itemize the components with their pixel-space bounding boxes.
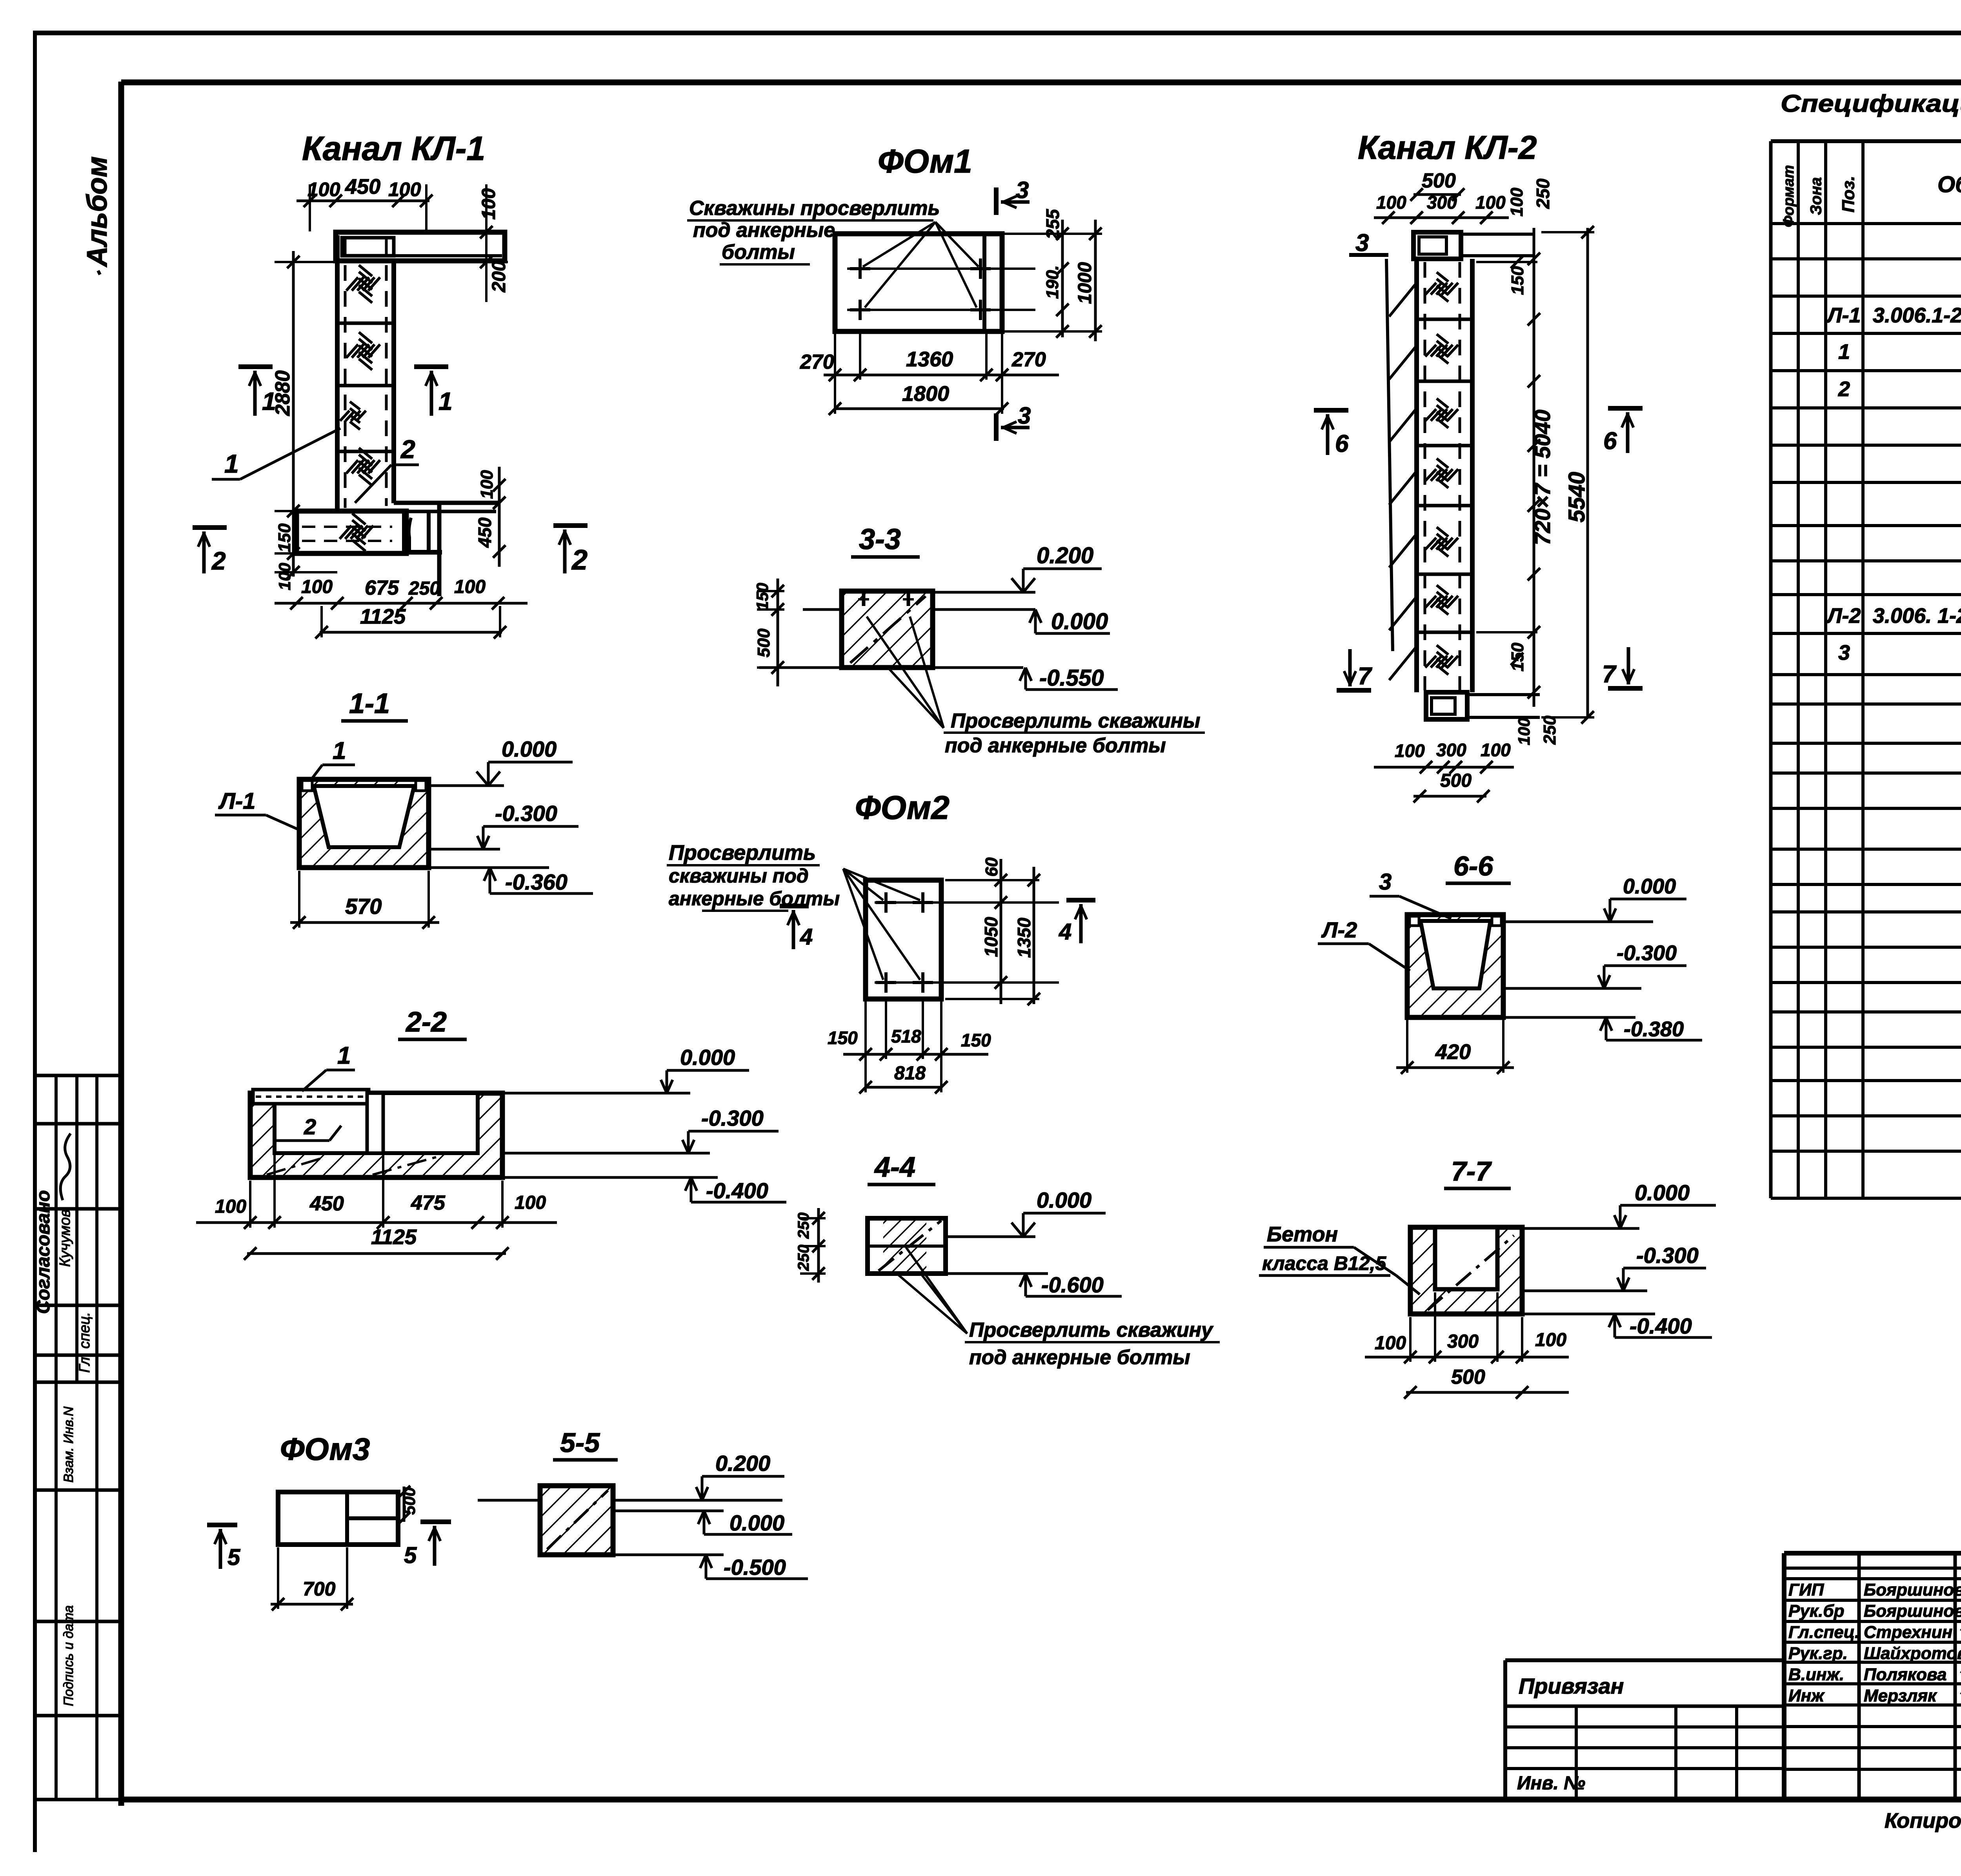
svg-text:3.006. 1-2/82: 3.006. 1-2/82	[1873, 604, 1961, 628]
6-6 trough	[1407, 915, 1503, 1017]
ФОм3 dim 500	[403, 1487, 406, 1522]
svg-text:150: 150	[961, 1030, 991, 1050]
svg-text:Л-2: Л-2	[1321, 917, 1357, 942]
svg-text:Альбом: Альбом	[82, 156, 113, 267]
svg-text:-0.550: -0.550	[1039, 665, 1104, 691]
svg-text:0.000: 0.000	[680, 1045, 735, 1070]
КЛ-1 left dim line 2880 150 100	[292, 251, 295, 577]
КЛ-2 terrain boundary	[1386, 259, 1393, 651]
3-3 level 0.000	[803, 608, 842, 611]
3-3 bolts	[862, 592, 866, 606]
svg-text:Просверлить скважину: Просверлить скважину	[969, 1319, 1214, 1341]
svg-text:2: 2	[211, 547, 226, 575]
2-2 tub	[250, 1093, 502, 1177]
svg-text:анкерные болты: анкерные болты	[669, 888, 840, 910]
КЛ-1 wall column	[335, 235, 340, 511]
svg-text:Гл.спец.: Гл.спец.	[1788, 1623, 1859, 1642]
svg-text:6-6: 6-6	[1453, 851, 1493, 881]
svg-text:3: 3	[1838, 641, 1850, 664]
svg-text:100: 100	[454, 577, 486, 597]
svg-text:1000: 1000	[1075, 262, 1095, 304]
svg-text:4-4: 4-4	[874, 1152, 915, 1183]
svg-text:450: 450	[309, 1192, 344, 1215]
svg-text:4: 4	[800, 924, 813, 950]
svg-text:150: 150	[1508, 266, 1527, 295]
svg-text:Мерзляк: Мерзляк	[1864, 1686, 1937, 1705]
svg-text:150: 150	[753, 583, 771, 610]
svg-text:1050: 1050	[981, 917, 1001, 957]
6-6 level -0.380	[1503, 1016, 1635, 1019]
svg-text:100: 100	[1475, 192, 1506, 213]
svg-text:-0.600: -0.600	[1041, 1272, 1104, 1297]
svg-text:250: 250	[408, 578, 440, 599]
svg-text:3: 3	[1016, 177, 1029, 203]
3-3 level 0.200	[933, 591, 1035, 594]
4-4 block	[883, 1218, 926, 1274]
svg-text:1800: 1800	[902, 382, 949, 406]
4-4 leader fan	[898, 1275, 967, 1334]
КЛ-2 mark 6 right	[1608, 406, 1643, 411]
svg-text:-0.300: -0.300	[1636, 1243, 1699, 1268]
svg-text:-0.400: -0.400	[706, 1178, 768, 1203]
ФОм3 plan	[278, 1492, 398, 1545]
svg-text:100: 100	[1376, 192, 1406, 213]
3-3 left dims 150 500	[777, 579, 779, 686]
ФОм1 leader fan	[863, 222, 935, 267]
svg-text:Шайхротов: Шайхротов	[1864, 1644, 1961, 1663]
1-1 level 0.000	[429, 784, 504, 787]
svg-text:Л-1: Л-1	[1826, 304, 1861, 327]
svg-text:300: 300	[1427, 192, 1457, 213]
7-7 level 0.000	[1522, 1227, 1639, 1230]
svg-text:Канал КЛ-1: Канал КЛ-1	[302, 130, 485, 167]
svg-text:ГИП: ГИП	[1788, 1580, 1825, 1599]
2-2 divider wall	[367, 1093, 383, 1153]
svg-text:100: 100	[1507, 187, 1526, 217]
svg-text:Зона: Зона	[1808, 177, 1825, 215]
svg-text:675: 675	[365, 577, 399, 599]
ФОм2 bolt axes	[875, 901, 1059, 904]
svg-text:0.200: 0.200	[1037, 543, 1093, 568]
КЛ-1 wall hatch blobs	[346, 277, 358, 291]
svg-text:Обозначение: Обозначение	[1937, 172, 1961, 197]
svg-text:500: 500	[754, 628, 773, 657]
svg-text:Привязан: Привязан	[1519, 1674, 1624, 1698]
svg-text:скважины под: скважины под	[669, 865, 809, 887]
svg-text:60: 60	[982, 857, 1001, 877]
svg-text:200: 200	[489, 261, 509, 293]
svg-text:1: 1	[1838, 340, 1850, 364]
svg-text:270: 270	[800, 351, 834, 373]
svg-text:5-5: 5-5	[560, 1427, 600, 1458]
КЛ-2 dim 5540	[1586, 228, 1589, 717]
5-5 level 0.200	[613, 1499, 782, 1502]
svg-text:ФОм3: ФОм3	[280, 1432, 370, 1467]
ФОм1 right dims 255 190 1000	[1061, 220, 1064, 337]
svg-text:6: 6	[1335, 430, 1349, 457]
svg-text:500: 500	[1440, 770, 1472, 791]
outer border top	[33, 31, 1961, 35]
svg-text:500: 500	[400, 1487, 418, 1515]
svg-text:Бетон: Бетон	[1267, 1223, 1338, 1246]
ФОм1 section mark 3 top	[994, 187, 999, 215]
svg-text:4: 4	[1059, 919, 1071, 944]
svg-text:100: 100	[515, 1192, 546, 1213]
svg-text:Просверлить скважины: Просверлить скважины	[951, 710, 1200, 732]
svg-text:150: 150	[828, 1028, 858, 1048]
svg-text:Копировал: Копировал	[1885, 1809, 1961, 1832]
svg-text:-0.300: -0.300	[701, 1106, 764, 1130]
КЛ-2 mark 7 right	[1608, 686, 1643, 691]
svg-text:Канал КЛ-2: Канал КЛ-2	[1358, 129, 1537, 166]
КЛ-1 bottom slab	[297, 511, 406, 553]
svg-text:475: 475	[411, 1192, 446, 1214]
7-7 channel	[1410, 1227, 1522, 1314]
svg-text:-0.400: -0.400	[1630, 1314, 1692, 1338]
svg-text:250: 250	[1533, 178, 1553, 209]
ФОм2 section mark 4 left	[780, 904, 809, 908]
svg-text:Рук.бр: Рук.бр	[1788, 1601, 1844, 1621]
3-3 block	[842, 591, 933, 668]
svg-text:Подпись и дата: Подпись и дата	[61, 1605, 76, 1706]
svg-text:Скважины просверлить: Скважины просверлить	[689, 197, 940, 220]
2-2 level -0.400	[502, 1176, 718, 1179]
2-2 level -0.300	[502, 1152, 710, 1155]
svg-text:700: 700	[303, 1578, 336, 1600]
ФОм1 section mark 3 bottom	[994, 413, 999, 441]
svg-text:190.: 190.	[1043, 265, 1062, 299]
left stamp column boxes	[33, 1075, 37, 1800]
4-4 top level 0.000	[946, 1236, 1035, 1238]
svg-text:Л-1: Л-1	[218, 788, 255, 814]
ФОм3 section mark 5 left	[207, 1523, 237, 1527]
svg-text:450: 450	[345, 175, 380, 198]
6-6 level 0.000	[1503, 921, 1653, 923]
КЛ-1 section mark 1 right	[414, 364, 448, 369]
svg-text:Рук.гр.: Рук.гр.	[1788, 1644, 1848, 1663]
svg-text:-0.380: -0.380	[1624, 1017, 1684, 1041]
svg-text:2-2: 2-2	[405, 1006, 447, 1038]
svg-text:Бояршинов: Бояршинов	[1864, 1601, 1961, 1621]
svg-text:5: 5	[227, 1545, 240, 1570]
svg-text:1125: 1125	[371, 1225, 417, 1249]
svg-text:Спецификация на каналы Кл-1: Спецификация на каналы Кл-1, Кл-2, фунда…	[1781, 90, 1961, 117]
svg-text:Инв. №: Инв. №	[1517, 1773, 1585, 1794]
svg-text:В.инж.: В.инж.	[1788, 1665, 1844, 1684]
outer border left	[33, 33, 37, 1852]
svg-text:3: 3	[1355, 229, 1369, 257]
ФОм1 plan	[835, 234, 1002, 331]
svg-text:под анкерные болты: под анкерные болты	[969, 1346, 1190, 1369]
5-5 level -0.500	[613, 1554, 724, 1556]
svg-text:1-1: 1-1	[349, 688, 390, 719]
svg-text:0.000: 0.000	[1623, 875, 1676, 898]
svg-text:250: 250	[1540, 715, 1559, 745]
svg-text:818: 818	[894, 1063, 926, 1084]
ФОм2 leader fan	[843, 869, 883, 900]
svg-text:Бояршинов: Бояршинов	[1864, 1580, 1961, 1599]
svg-text:6: 6	[1603, 428, 1617, 455]
КЛ-1 section mark 2 left	[193, 525, 227, 530]
2-2 level 0.000	[502, 1092, 690, 1095]
ФОм2 bolts	[876, 901, 896, 904]
svg-text:под анкерные болты: под анкерные болты	[945, 734, 1166, 757]
svg-text:500: 500	[1451, 1366, 1485, 1388]
КЛ-2 bottom cap	[1426, 692, 1467, 719]
svg-text:3: 3	[1379, 869, 1392, 895]
ФОм1 anchor bolts	[850, 267, 870, 270]
svg-text:под анкерные: под анкерные	[693, 219, 835, 242]
svg-text:болты: болты	[722, 241, 795, 264]
svg-text:Взам. Инв.N: Взам. Инв.N	[61, 1407, 76, 1483]
svg-text:Гл. спец.: Гл. спец.	[76, 1312, 93, 1373]
svg-text:255: 255	[1042, 209, 1063, 240]
svg-text:100: 100	[215, 1196, 246, 1217]
svg-text:0.000: 0.000	[1037, 1188, 1091, 1212]
svg-text:420: 420	[1435, 1040, 1471, 1064]
5-5 block	[540, 1486, 613, 1555]
svg-text:570: 570	[345, 894, 382, 919]
КЛ-1 section mark 1 left	[238, 364, 273, 369]
КЛ-2 mark 3 top	[1349, 253, 1388, 257]
svg-text:2: 2	[1838, 377, 1850, 401]
КЛ-2 mark 6 left	[1314, 408, 1348, 413]
svg-text:Полякова: Полякова	[1864, 1665, 1946, 1684]
2-2 lid	[253, 1090, 369, 1104]
svg-text:2: 2	[571, 544, 588, 576]
svg-text:1: 1	[438, 387, 453, 415]
svg-text:7: 7	[1602, 661, 1617, 688]
svg-text:5: 5	[404, 1543, 417, 1568]
svg-text:ФОм2: ФОм2	[855, 789, 950, 826]
svg-text:3-3: 3-3	[859, 523, 901, 555]
svg-text:2: 2	[400, 435, 415, 464]
svg-text:Формат: Формат	[1781, 165, 1797, 227]
КЛ-2 column	[1414, 259, 1419, 692]
svg-text:100: 100	[1395, 741, 1425, 761]
svg-text:Согласовано: Согласовано	[33, 1190, 54, 1314]
svg-text:1125: 1125	[360, 605, 406, 628]
svg-text:1: 1	[224, 449, 239, 478]
svg-text:100: 100	[477, 470, 497, 499]
КЛ-2 dim 720x7=5040	[1533, 228, 1535, 707]
svg-text:100: 100	[388, 178, 421, 200]
svg-text:150: 150	[275, 523, 294, 552]
7-7 level -0.400	[1522, 1313, 1655, 1316]
svg-text:Просверлить: Просверлить	[669, 841, 816, 864]
svg-text:3: 3	[1018, 402, 1031, 429]
ФОм2 right dims 60 1050 1350	[1000, 859, 1002, 1004]
svg-text:ФОм1: ФОм1	[878, 143, 972, 180]
5-5 level 0.000	[613, 1510, 724, 1512]
3-3 leader fan	[867, 617, 944, 728]
1-1 level -0.300	[429, 848, 500, 851]
svg-text:1: 1	[337, 1042, 351, 1069]
svg-text:100: 100	[478, 188, 499, 220]
svg-text:250: 250	[795, 1212, 812, 1239]
svg-text:450: 450	[475, 517, 495, 548]
КЛ-1 right dim 100 450	[498, 467, 501, 567]
svg-text:1: 1	[262, 387, 276, 415]
svg-text:7: 7	[1358, 663, 1372, 690]
5-5 surface line left	[478, 1499, 540, 1502]
КЛ-1 top slab	[336, 232, 505, 261]
svg-text:0.200: 0.200	[715, 1451, 770, 1476]
svg-text:-0.300: -0.300	[495, 801, 557, 826]
svg-text:100: 100	[301, 577, 333, 597]
7-7 level -0.300	[1522, 1290, 1647, 1292]
svg-text:-0.360: -0.360	[505, 870, 568, 894]
ФОм3 section mark 5 right	[420, 1519, 451, 1524]
svg-text:300: 300	[1447, 1331, 1479, 1352]
svg-text:518: 518	[891, 1026, 921, 1046]
svg-text:2: 2	[304, 1114, 316, 1139]
svg-text:0.000: 0.000	[502, 737, 557, 761]
svg-text:100: 100	[1515, 718, 1533, 745]
КЛ-2 terrain hatch	[1389, 283, 1417, 317]
6-6 level -0.300	[1503, 987, 1641, 990]
svg-text:720×7 = 5040: 720×7 = 5040	[1530, 409, 1555, 545]
svg-text:100: 100	[1481, 740, 1511, 760]
КЛ-2 mark 7 left	[1337, 688, 1371, 693]
svg-text:0.000: 0.000	[1051, 609, 1108, 634]
ФОм2 plan	[866, 880, 941, 999]
svg-text:1360: 1360	[906, 348, 953, 371]
КЛ-2 segment blobs	[1425, 283, 1436, 295]
svg-text:270: 270	[1011, 348, 1046, 371]
svg-text:-0.300: -0.300	[1617, 941, 1677, 965]
svg-text:1350: 1350	[1014, 917, 1034, 958]
4-4 bottom level -0.600	[946, 1272, 1048, 1275]
ФОм2 section mark 4 right	[1066, 898, 1095, 903]
title block staff table	[1782, 1553, 1786, 1798]
svg-text:0.000: 0.000	[729, 1510, 784, 1535]
svg-text:300: 300	[1436, 740, 1466, 760]
svg-text:100: 100	[1375, 1333, 1406, 1354]
svg-text:100: 100	[275, 563, 294, 590]
svg-text:500: 500	[1422, 169, 1456, 192]
svg-text:1: 1	[333, 737, 346, 764]
ФОм1 bolt axis lines	[847, 267, 1035, 270]
привязан table	[1505, 1658, 1784, 1662]
1-1 trough	[299, 779, 429, 868]
svg-text:-0.500: -0.500	[724, 1555, 786, 1579]
svg-text:Л-2: Л-2	[1826, 604, 1861, 628]
svg-text:3.006.1-2/82: 3.006.1-2/82	[1873, 304, 1961, 327]
svg-text:Стрехнин: Стрехнин	[1864, 1623, 1952, 1642]
frame	[118, 82, 124, 1806]
svg-text:7-7: 7-7	[1451, 1156, 1492, 1186]
3-3 level -0.550	[759, 666, 1023, 669]
svg-text:100: 100	[1535, 1330, 1566, 1350]
4-4 left dims 250 250	[817, 1208, 820, 1283]
svg-text:Поз.: Поз.	[1839, 176, 1858, 212]
svg-text:0.000: 0.000	[1635, 1180, 1690, 1205]
1-1 level -0.360	[429, 866, 549, 869]
svg-text:250: 250	[795, 1245, 812, 1271]
spec table grid	[1771, 139, 1961, 143]
svg-text:5540: 5540	[1564, 472, 1590, 522]
КЛ-1 section mark 2 right	[553, 523, 588, 528]
2-2 slab dash-dot	[267, 1157, 326, 1175]
КЛ-2 top cap	[1413, 232, 1461, 259]
svg-text:Инж: Инж	[1788, 1686, 1825, 1705]
svg-text:Кучумов: Кучумов	[57, 1209, 73, 1267]
